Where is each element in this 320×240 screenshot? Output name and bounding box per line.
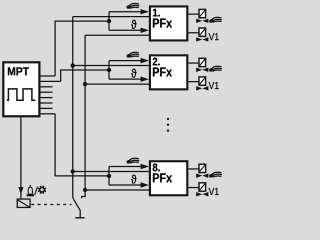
junction T1 row 2: [71, 63, 75, 67]
label V1 row 1: [209, 33, 219, 40]
fault relay box: [17, 199, 30, 207]
gear icon: [38, 186, 47, 195]
wire plain input 2 row 1: [85, 34, 151, 36]
node feed split 1: [108, 12, 110, 31]
wire sensor input 1 row 2: [109, 60, 142, 62]
valve actuator output 2 row 1: [196, 28, 208, 42]
flue-gas icon at valve row 1: [209, 17, 222, 23]
valve actuator output 2 row 2: [196, 77, 208, 91]
flue-gas sensor icon row 2: [126, 52, 139, 58]
valve actuator output 1 row 2: [196, 58, 208, 72]
alarm bell icon: [29, 185, 31, 187]
PFx box 1: [150, 6, 187, 40]
wire sensor input 2 row 1: [109, 29, 142, 31]
label 1.: [153, 9, 160, 17]
relay diagonal: [18, 200, 30, 208]
wire plain input 2 row 8: [85, 189, 151, 191]
wire sensor input 2 row 8: [109, 184, 142, 186]
wire output 1 row 8: [188, 168, 198, 170]
junction T2 row 2: [83, 82, 87, 86]
wire riser bus line 2 to row 2 feed: [61, 70, 109, 81]
wire riser bus line 8 to row 8 feed: [55, 114, 109, 176]
label PFx 8: [153, 173, 172, 182]
PFx box 2: [150, 55, 187, 89]
wire output 1 row 1: [188, 13, 198, 15]
label V1 row 8: [209, 188, 219, 195]
arrow down: [18, 187, 23, 194]
flue-gas icon at valve row 2: [209, 66, 222, 72]
wire plain input 1 row 2: [73, 65, 151, 67]
wire output 1 row 2: [188, 62, 198, 64]
wire sensor input 1 row 8: [109, 166, 142, 168]
trunk wire T1: [73, 17, 74, 200]
pulse waveform symbol: [7, 89, 36, 100]
valve actuator output 2 row 8: [196, 183, 208, 197]
flue-gas sensor icon row 1: [126, 3, 139, 9]
wire plain input 1 row 1: [73, 16, 151, 18]
switch end bar: [75, 217, 85, 219]
mechanical link dashed: [31, 204, 71, 206]
MPT controller box: [3, 62, 39, 116]
slash: [35, 187, 38, 196]
label PFx 1: [153, 19, 172, 28]
junction T2 row 8: [83, 188, 87, 192]
wire output 2 row 2: [188, 81, 198, 83]
node feed split 8: [108, 167, 110, 186]
temperature sensor symbol row 8: [131, 175, 136, 184]
label PFx 2: [153, 67, 172, 76]
label 2.: [153, 58, 160, 66]
wire sensor input 2 row 2: [109, 78, 142, 80]
wire riser bus line 1 to row 1 feed: [55, 21, 109, 76]
valve actuator output 1 row 1: [196, 9, 208, 23]
valve actuator output 1 row 8: [196, 164, 208, 178]
switch blade: [74, 200, 80, 218]
wire output 2 row 8: [188, 187, 198, 189]
label V1 row 2: [209, 82, 219, 89]
wire output 2 row 1: [188, 32, 198, 34]
flue-gas icon at valve row 8: [209, 172, 222, 178]
wire plain input 1 row 8: [73, 170, 151, 172]
ellipsis rows 3..7: [167, 118, 169, 120]
node feed split 2: [108, 61, 110, 80]
wire sensor input 1 row 1: [109, 11, 142, 13]
label 8.: [153, 164, 160, 172]
wire plain input 2 row 2: [85, 83, 151, 85]
PFx box 8: [150, 161, 187, 195]
temperature sensor symbol row 1: [131, 20, 136, 29]
junction T1 row 8: [71, 169, 75, 173]
MPT label: [8, 67, 29, 75]
trunk wire T2: [82, 35, 86, 198]
flue-gas sensor icon row 8: [126, 158, 139, 164]
wire MPT to fault relay: [20, 117, 22, 198]
temperature sensor symbol row 2: [131, 69, 136, 78]
MPT output bus stubs: [40, 75, 55, 77]
